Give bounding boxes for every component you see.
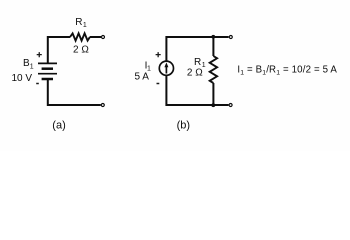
value label 5 A (current source) — [135, 72, 150, 83]
terminal: open circle bottom-right (b) — [229, 104, 232, 107]
wire: current source bottom to bottom-right terminal (b) — [166, 76, 228, 105]
terminal: open circle top-right (b) — [229, 36, 232, 39]
wire: top junction down to resistor (b) — [212, 37, 214, 56]
svg-text:R: R — [75, 17, 82, 28]
value label 2 ohm (circuit a) — [73, 44, 89, 55]
svg-text:2 Ω: 2 Ω — [73, 44, 89, 55]
caption (a) — [52, 120, 65, 132]
resistor R1 (circuit b, vertical zigzag) — [210, 56, 217, 83]
svg-text:1: 1 — [83, 22, 87, 29]
svg-text:I1 = B1/R1 = 10/2 = 5 A: I1 = B1/R1 = 10/2 = 5 A — [237, 64, 337, 76]
svg-text:1: 1 — [30, 63, 34, 70]
label R1 (circuit b) — [194, 57, 206, 69]
wire: resistor to bottom junction (b) — [212, 83, 214, 105]
terminal: open circle bottom-right (a) — [101, 104, 104, 107]
caption (b) — [177, 120, 190, 132]
junction node dot bottom (b) — [211, 103, 215, 107]
junction node dot top (b) — [211, 35, 215, 39]
wire: battery negative to bottom-right terminal (a) — [48, 79, 101, 105]
label B1 — [23, 58, 34, 70]
label R1 (circuit a) — [75, 17, 87, 29]
svg-text:10 V: 10 V — [12, 73, 33, 84]
label I1 (current source) — [145, 61, 151, 73]
polarity minus sign (current source) — [157, 83, 160, 85]
polarity minus sign (battery) — [36, 83, 39, 85]
svg-text:(b): (b) — [177, 120, 190, 132]
svg-text:2 Ω: 2 Ω — [187, 67, 203, 78]
battery B1 plates — [38, 63, 57, 79]
wire: circuit (a) battery positive to resistor (top-left corner) — [48, 37, 70, 63]
polarity plus sign (current source) — [156, 52, 161, 57]
svg-text:5 A: 5 A — [135, 72, 150, 83]
terminal: open circle top-right (a) — [102, 36, 105, 39]
polarity plus sign (battery) — [37, 52, 42, 57]
current source arrow (pointing up) — [164, 62, 168, 73]
value label 2 ohm (circuit b) — [187, 67, 203, 78]
current source I1 circle — [159, 61, 173, 75]
value label 10 V (battery) — [12, 73, 33, 84]
resistor R1 (circuit a, horizontal zigzag) — [70, 33, 90, 40]
svg-text:(a): (a) — [52, 120, 65, 132]
wire: current source top to top-right terminal (b) — [166, 37, 228, 61]
wire: resistor to top-right terminal (a) — [90, 36, 101, 38]
equation I1 = B1/R1 = 10/2 = 5 A — [237, 64, 337, 76]
svg-text:R: R — [194, 57, 201, 68]
